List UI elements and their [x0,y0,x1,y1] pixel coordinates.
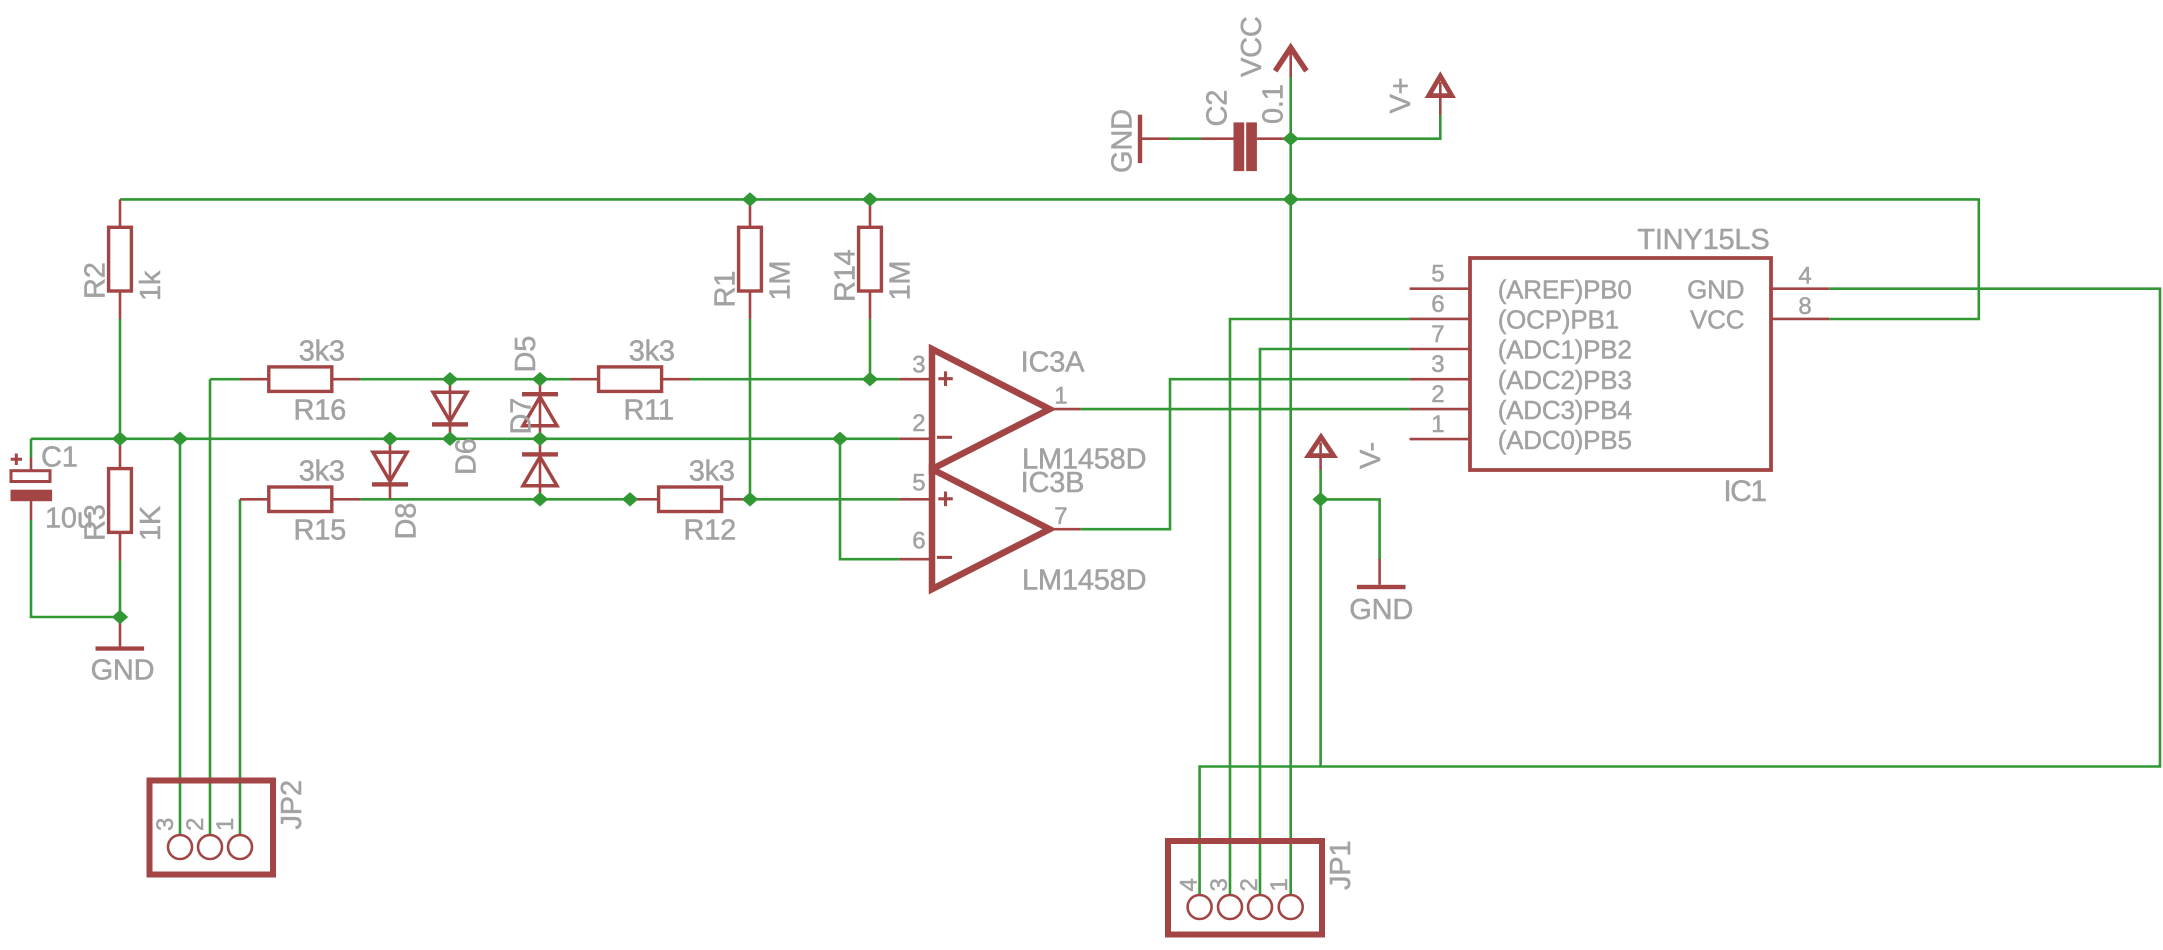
svg-text:0.1: 0.1 [1258,84,1290,124]
V+ symbol triangle [1429,76,1452,96]
VCC symbol stub [1289,52,1292,78]
svg-text:C2: C2 [1202,90,1234,127]
svg-text:5: 5 [912,469,925,496]
junction row A x=540 [532,372,548,386]
resistor R14 body [859,227,882,291]
resistor R1 pins [749,199,752,319]
wire C1 bottom to GND node [31,520,120,617]
junction row B x=390 [382,432,398,446]
junction row A x=870 [862,372,878,386]
wire row C right segment [750,498,899,501]
svg-text:3: 3 [1206,878,1233,891]
svg-text:3k3: 3k3 [629,335,675,367]
svg-text:5: 5 [1431,261,1444,288]
svg-text:1K: 1K [135,505,167,541]
junction row B x=450 [442,432,458,446]
junction row B x=840 [832,432,848,446]
resistor R11 pins [570,378,690,381]
svg-text:GND: GND [1107,109,1139,173]
wire VCC top bus [120,199,1979,319]
svg-text:D8: D8 [390,503,422,540]
junction node C2/V+ [1283,132,1299,146]
svg-text:JP1: JP1 [1325,841,1357,890]
connector JP2 pin 2 circle [198,835,222,859]
op-amp IC3A minus mark [937,436,952,439]
svg-text:1: 1 [1266,878,1293,891]
IC1 left pin stubs [1410,289,1470,439]
capacitor C1 bottom plate [11,490,53,502]
wire VCC vertical trunk to JP1 pin1 [1289,78,1292,908]
svg-text:1: 1 [1431,411,1444,438]
wire IC1 GND pin4 loop to JP1 pin4 [1200,289,2160,907]
svg-text:1: 1 [1054,382,1067,409]
svg-text:TINY15LS: TINY15LS [1637,224,1769,256]
svg-text:GND: GND [91,654,155,686]
resistor R15 body [269,487,332,512]
svg-text:R16: R16 [294,395,347,427]
connector JP1 pin 3 circle [1218,895,1242,919]
resistor R16 pins [240,378,360,381]
diode D6 triangle [433,392,467,421]
resistor R12 body [659,487,722,512]
wire JP2 pin1 drop [239,499,242,847]
wire JP2 pin2 drop [209,379,212,847]
op-amp IC3A input pins [899,379,932,439]
svg-text:2: 2 [912,410,925,437]
svg-text:(ADC2)PB3: (ADC2)PB3 [1498,365,1632,395]
wire C1 top drop [30,439,33,458]
diode D7 triangle [523,457,557,486]
op-amp IC3A plus mark [938,371,953,386]
svg-text:VCC: VCC [1690,305,1744,335]
svg-text:R1: R1 [709,271,741,308]
svg-text:2: 2 [1431,381,1444,408]
op-amp IC3A triangle [932,349,1050,469]
svg-text:R15: R15 [294,515,347,547]
connector JP1 pin 4 circle [1188,895,1212,919]
svg-text:IC3A: IC3A [1021,346,1086,378]
junction node V- [1312,492,1328,506]
svg-text:GND: GND [1349,594,1413,626]
svg-text:LM1458D: LM1458D [1022,565,1146,597]
ground bar left [96,646,145,650]
diode D6 lead [449,379,452,439]
op-amp IC3B input pins [899,499,932,559]
VCC symbol arrow [1275,48,1306,71]
op-amp IC3B triangle [932,469,1050,589]
resistor R14 pins [869,199,872,319]
wire row A mid segment [360,378,570,381]
wire row A left segment [210,378,240,381]
svg-text:1k: 1k [135,270,167,301]
svg-text:C1: C1 [41,442,78,474]
svg-text:1: 1 [212,818,239,831]
ground bar mid [1357,585,1406,589]
op-amp IC3B minus mark [937,556,952,559]
svg-text:(ADC1)PB2: (ADC1)PB2 [1498,335,1632,365]
svg-text:V+: V+ [1385,78,1417,114]
junction top bus x=870 [862,192,878,206]
diode D6 cathode bar [432,422,468,426]
V- symbol stub [1319,443,1322,471]
svg-text:(ADC0)PB5: (ADC0)PB5 [1498,425,1632,455]
resistor R11 body [599,367,662,392]
svg-text:V-: V- [1355,442,1387,469]
svg-text:D5: D5 [510,336,542,373]
wire R2 bottom to row B [119,319,122,439]
svg-text:3k3: 3k3 [299,455,345,487]
svg-text:8: 8 [1798,293,1811,320]
GND mid stem [1378,559,1381,585]
diode D8 cathode bar [372,482,408,486]
IC1 right pin stubs [1771,289,1829,319]
op-amp IC3B plus mark [938,492,953,507]
resistor R12 pins [630,498,750,501]
svg-text:IC3B: IC3B [1021,467,1085,499]
wire row C mid segment [360,498,630,501]
svg-text:3: 3 [152,818,179,831]
junction top bus x=750 [742,192,758,206]
diode D7 cathode bar [522,452,558,456]
wire C2 middle segment [1169,137,1201,140]
resistor R3 pins [119,439,122,561]
svg-text:2: 2 [1236,878,1263,891]
capacitor C2 plates [1234,122,1245,171]
resistor R16 body [269,367,332,392]
connector JP1 box [1168,841,1322,935]
resistor R15 pins [240,498,360,501]
capacitor C1 plus sign [11,454,22,466]
svg-text:VCC: VCC [1236,16,1268,77]
junction row C x=750 [742,492,758,506]
diode D5 lead [539,379,542,439]
svg-text:R12: R12 [684,515,737,547]
connector JP1 pin 1 circle [1279,895,1303,919]
wire inverting branch to pin 6 [840,439,899,559]
svg-text:2: 2 [182,818,209,831]
svg-text:(ADC3)PB4: (ADC3)PB4 [1498,395,1632,425]
junction row B x=120 [112,432,128,446]
resistor R2 pins [119,199,122,319]
wire IC1 pin6 to JP1 pin3 [1230,319,1410,907]
resistor R2 body [109,227,132,291]
wire IC3A output to IC1 pin2 [1081,408,1410,411]
capacitor C1 top plate [11,471,50,482]
svg-text:7: 7 [1431,321,1444,348]
svg-text:3k3: 3k3 [689,455,735,487]
svg-text:6: 6 [1431,291,1444,318]
junction row B x=540 [532,432,548,446]
GND top pin / C2 pins [1142,137,1291,140]
wire row B horizontal [31,437,899,440]
svg-text:R14: R14 [829,249,861,302]
wire IC1 pin7 to JP1 pin2 [1260,349,1410,907]
junction row C x=630 [622,492,638,506]
wire JP2 pin3 drop [179,439,182,847]
junction top bus x=1290.7 [1283,192,1299,206]
wire R14 bottom to row A [869,319,872,379]
wire R3 bottom to GND node [119,561,122,618]
junction row B x=180 [172,432,188,446]
wire V- to GND branch [1321,499,1380,558]
wire V- drop [1319,470,1322,767]
svg-text:D7: D7 [506,398,538,435]
connector JP1 pin 2 circle [1248,895,1272,919]
connector JP2 pin 1 circle [228,835,252,859]
svg-text:(OCP)PB1: (OCP)PB1 [1498,305,1619,335]
diode D8 triangle [373,452,407,481]
svg-text:4: 4 [1176,878,1203,891]
svg-text:D6: D6 [451,438,483,475]
junction node C1/R3 ground [112,610,128,624]
svg-text:1M: 1M [885,261,917,301]
V- symbol triangle [1308,437,1333,456]
svg-text:IC1: IC1 [1723,475,1766,508]
connector JP2 pin 3 circle [168,835,192,859]
resistor R3 body [109,469,132,533]
wire row A right segment [690,378,899,381]
diode D5 cathode bar [522,392,558,396]
wire R1 bottom drop to row C [749,319,752,499]
svg-text:6: 6 [912,527,925,554]
svg-text:(AREF)PB0: (AREF)PB0 [1498,275,1632,305]
junction row A x=450 [442,372,458,386]
connector JP2 box [150,781,274,875]
wire V+ link [1291,115,1441,139]
V+ symbol stub [1439,82,1442,115]
diode D5 triangle [523,397,557,426]
svg-text:4: 4 [1798,263,1811,290]
diode D8 lead [389,439,392,500]
svg-text:R11: R11 [624,395,674,427]
svg-text:R2: R2 [79,262,111,299]
IC1 box [1470,258,1771,470]
ground bar top (rotated) [1138,115,1142,163]
capacitor C1 pins [30,458,33,521]
svg-text:3: 3 [1431,351,1444,378]
svg-text:1M: 1M [765,261,797,301]
svg-text:JP2: JP2 [276,780,308,829]
svg-text:GND: GND [1687,275,1744,305]
wire IC3B output to IC1 pin3 [1081,379,1410,529]
op-amp output pins [1050,409,1081,529]
svg-text:7: 7 [1054,503,1067,530]
diode D7 lead [539,439,542,500]
svg-text:R3: R3 [79,504,111,541]
svg-text:3k3: 3k3 [299,335,345,367]
ground stem left [119,617,122,646]
svg-text:3: 3 [912,352,925,379]
junction row C x=540 [532,492,548,506]
resistor R1 body [739,227,762,291]
